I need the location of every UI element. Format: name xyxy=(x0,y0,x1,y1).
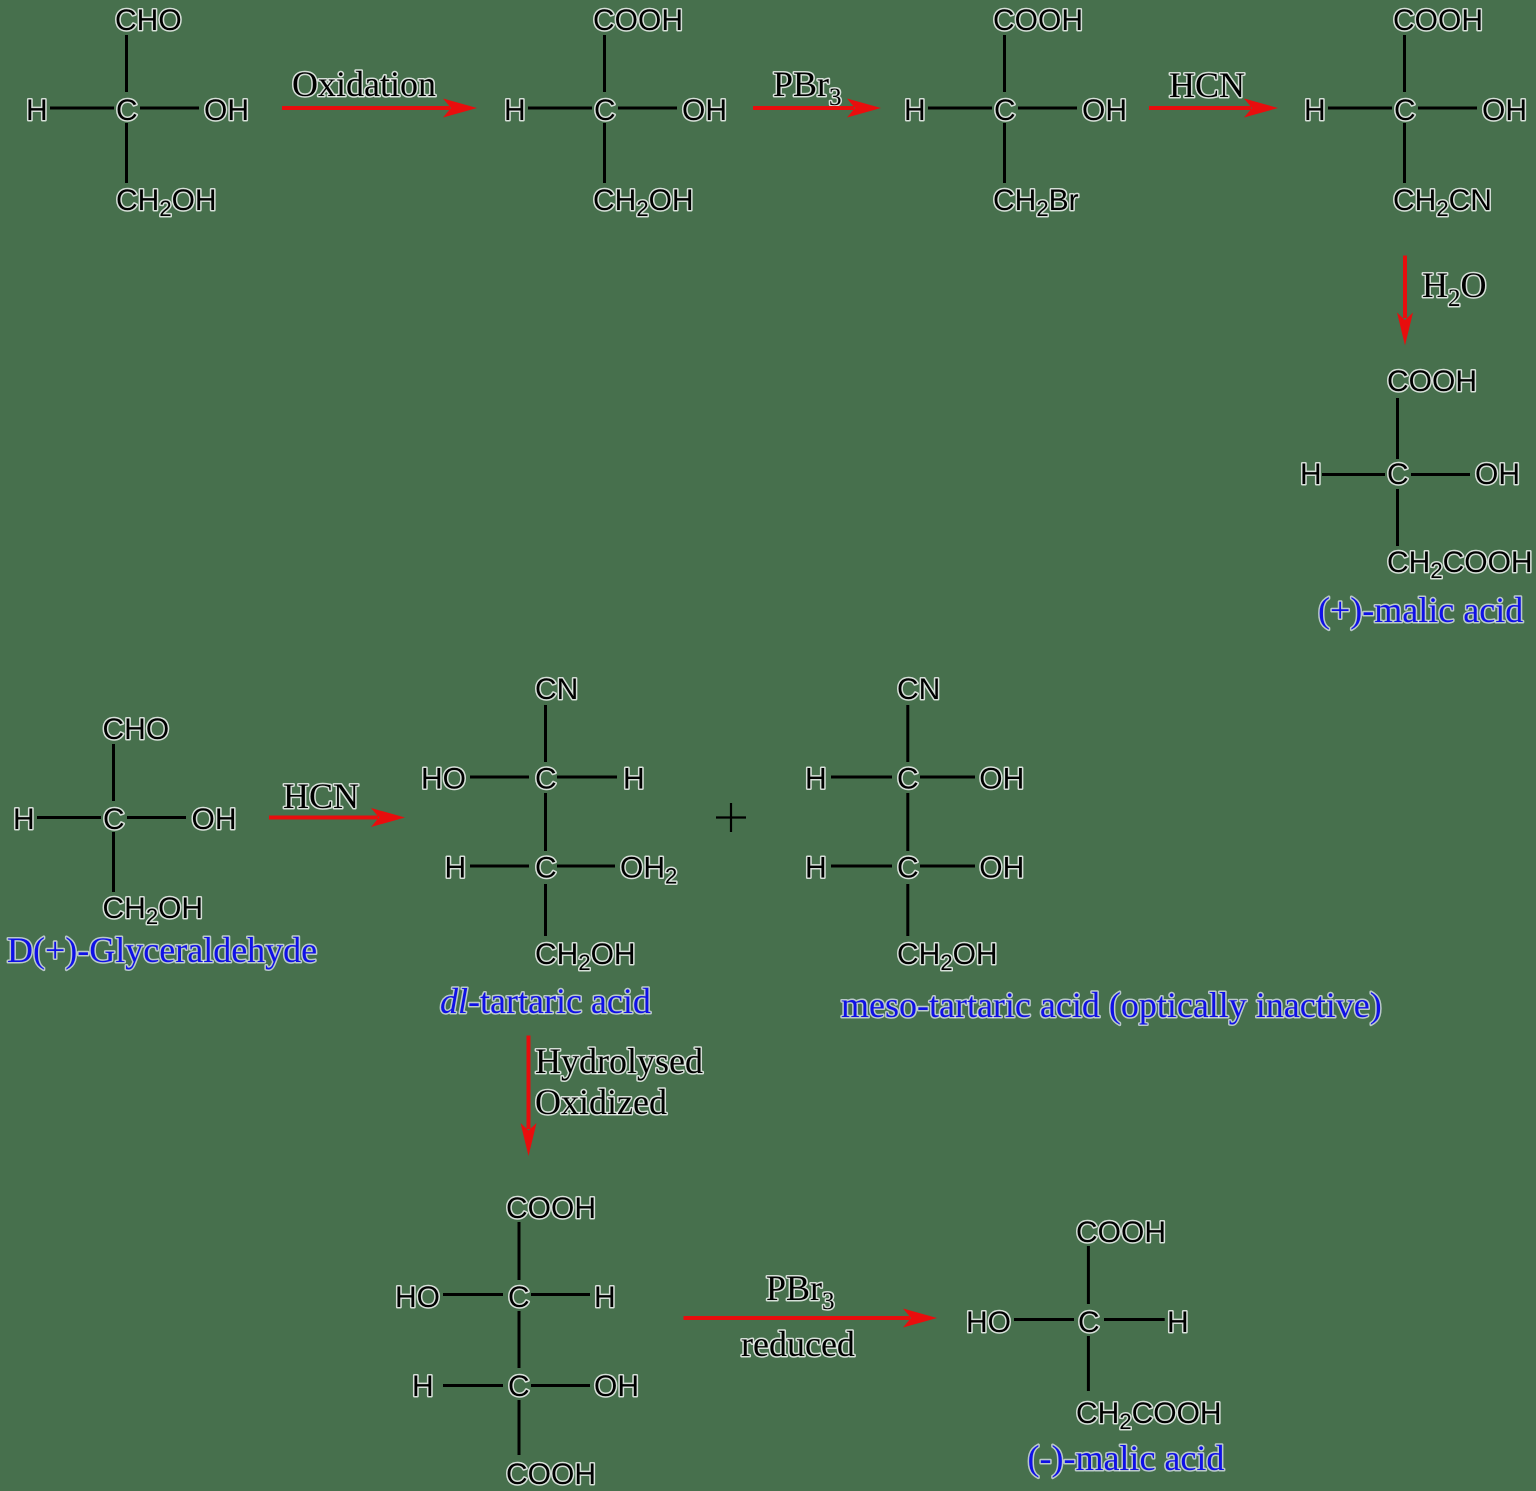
svg-text:CH2COOH: CH2COOH xyxy=(1387,546,1533,583)
svg-text:COOH: COOH xyxy=(1076,1216,1166,1249)
svg-text:COOH: COOH xyxy=(993,4,1083,37)
svg-text:H: H xyxy=(1304,94,1326,127)
svg-text:H: H xyxy=(594,1281,616,1314)
svg-text:COOH: COOH xyxy=(506,1458,596,1491)
svg-text:H: H xyxy=(412,1370,434,1403)
svg-text:reduced: reduced xyxy=(741,1324,855,1364)
svg-text:dl-tartaric acid: dl-tartaric acid xyxy=(440,981,651,1021)
svg-text:COOH: COOH xyxy=(593,4,683,37)
svg-text:OH: OH xyxy=(192,803,237,836)
svg-text:H: H xyxy=(504,94,526,127)
svg-text:C: C xyxy=(508,1370,530,1403)
svg-text:C: C xyxy=(594,94,616,127)
svg-text:OH: OH xyxy=(979,763,1024,796)
svg-text:C: C xyxy=(897,852,919,885)
svg-text:HO: HO xyxy=(421,763,466,796)
svg-text:C: C xyxy=(535,852,557,885)
svg-text:C: C xyxy=(1078,1306,1100,1339)
svg-text:H: H xyxy=(805,852,827,885)
svg-text:C: C xyxy=(994,94,1016,127)
svg-text:HO: HO xyxy=(966,1306,1011,1339)
svg-text:meso-tartaric acid (optically: meso-tartaric acid (optically inactive) xyxy=(841,985,1382,1025)
svg-text:C: C xyxy=(508,1281,530,1314)
svg-text:OH: OH xyxy=(979,852,1024,885)
svg-text:OH: OH xyxy=(1482,94,1527,127)
svg-text:(-)-malic acid: (-)-malic acid xyxy=(1028,1438,1225,1478)
svg-text:CH2Br: CH2Br xyxy=(993,184,1079,221)
svg-text:H: H xyxy=(1167,1306,1189,1339)
svg-text:OH: OH xyxy=(682,94,727,127)
svg-text:C: C xyxy=(897,763,919,796)
svg-text:COOH: COOH xyxy=(1387,365,1477,398)
svg-text:C: C xyxy=(535,763,557,796)
svg-text:H: H xyxy=(26,94,48,127)
svg-text:OH: OH xyxy=(1082,94,1127,127)
svg-text:C: C xyxy=(116,94,138,127)
svg-text:C: C xyxy=(103,803,125,836)
svg-text:CN: CN xyxy=(535,673,578,706)
svg-text:H: H xyxy=(1300,458,1322,491)
svg-text:CH2COOH: CH2COOH xyxy=(1076,1397,1222,1434)
svg-text:H: H xyxy=(445,852,467,885)
svg-text:OH: OH xyxy=(1475,458,1520,491)
svg-text:CHO: CHO xyxy=(115,4,182,37)
svg-text:H: H xyxy=(623,763,645,796)
svg-text:OH: OH xyxy=(204,94,249,127)
svg-text:COOH: COOH xyxy=(506,1192,596,1225)
svg-text:OH: OH xyxy=(594,1370,639,1403)
svg-text:Oxidation: Oxidation xyxy=(292,64,436,104)
svg-text:HCN: HCN xyxy=(283,776,359,816)
svg-text:Hydrolysed: Hydrolysed xyxy=(535,1041,703,1081)
svg-text:H: H xyxy=(904,94,926,127)
svg-text:H: H xyxy=(805,763,827,796)
svg-text:H: H xyxy=(13,803,35,836)
svg-text:D(+)-Glyceraldehyde: D(+)-Glyceraldehyde xyxy=(7,930,317,970)
svg-text:C: C xyxy=(1387,458,1409,491)
svg-text:COOH: COOH xyxy=(1393,4,1483,37)
svg-text:HO: HO xyxy=(395,1281,440,1314)
svg-text:Oxidized: Oxidized xyxy=(535,1082,667,1122)
svg-text:C: C xyxy=(1394,94,1416,127)
svg-text:CN: CN xyxy=(897,673,940,706)
svg-text:CHO: CHO xyxy=(103,713,170,746)
svg-text:(+)-malic acid: (+)-malic acid xyxy=(1318,590,1523,630)
svg-text:HCN: HCN xyxy=(1169,65,1245,105)
